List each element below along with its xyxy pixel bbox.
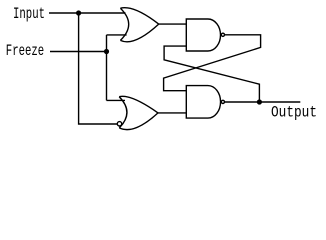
nand U4 body (bottom NAND) [186, 86, 220, 119]
bubble NAND2 output [221, 100, 224, 103]
or-gate U3 (bottom OR) [119, 96, 158, 129]
svg-text:Freeze: Freeze [6, 42, 44, 60]
junction dot Output [257, 99, 262, 104]
junction dot Input [76, 10, 81, 15]
wire Freeze riser vertical [106, 35, 108, 101]
wire Freeze to OR2 upper input [107, 99, 126, 101]
wire Input horizontal [49, 12, 126, 14]
wire NAND2 output to Output node [225, 101, 301, 103]
wire OR1 output to NAND1 input [159, 23, 187, 25]
junction dot Freeze [104, 49, 109, 54]
wire NAND2 output cross-couple to NAND1 lower input [164, 46, 259, 102]
svg-text:Input: Input [13, 5, 45, 23]
svg-text:Output: Output [271, 103, 317, 121]
nand U2 body (top NAND) [186, 19, 220, 51]
wire OR2 output to NAND2 input [158, 112, 186, 114]
bubble NAND1 output [221, 33, 224, 36]
wire NAND1 output cross-couple to NAND2 upper input [164, 35, 261, 91]
wire Freeze horizontal [50, 51, 107, 53]
bubble OR2 inverted input [117, 122, 121, 126]
or-gate U1 (top OR) [120, 8, 158, 42]
wire Input riser down to OR2 inverted input [79, 13, 118, 124]
wire Freeze to OR1 lower input [107, 34, 127, 36]
